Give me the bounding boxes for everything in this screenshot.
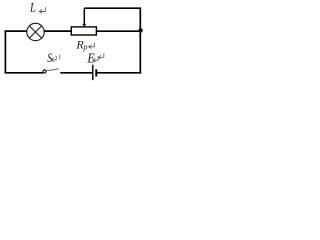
wire switch to battery [60,72,92,74]
wire lamp to rheostat [44,30,71,32]
junction node dot [138,28,142,32]
paragraph mark of empty line right of E [98,53,104,59]
rheostat RP body [71,27,96,35]
formatting caret bar right of S mark [59,55,61,60]
wire battery to bottom-right corner [97,72,141,74]
battery E [93,65,97,80]
wire rheostat to right junction [96,30,140,32]
svg-text:L: L [29,0,36,15]
switch S [43,69,59,73]
wire left loop: mid wire, left vertical, bottom-left wire [5,31,43,73]
paragraph mark after RP [89,43,95,49]
lamp L [27,23,44,40]
paragraph mark after S [51,56,56,62]
wire top + right vertical [84,8,140,73]
svg-text:S: S [47,51,52,65]
paragraph mark after E [93,56,98,62]
paragraph mark after L [39,7,45,13]
rheostat slider arrow [82,8,86,27]
svg-text:E: E [86,51,95,66]
